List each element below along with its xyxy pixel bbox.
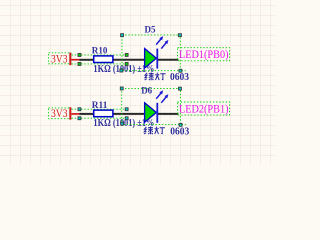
LED D5 emission arrow 2 [161,43,166,49]
LED D6 [145,90,169,123]
svg-text:D5: D5 [145,25,156,35]
svg-text:LED1(PB0): LED1(PB0) [179,48,229,61]
LED D5 [145,36,169,69]
selection box: net label LED2(PB1) [178,102,230,115]
sheet background [0,0,275,164]
svg-text:3V3: 3V3 [51,108,68,120]
LED D6 cathode bar [156,103,158,123]
selection handles: resistor R11 (cyan) [78,108,128,120]
LED D5 triangle [145,49,157,69]
selection box: LED D6 [122,88,186,124]
LED D6 triangle [145,103,157,123]
svg-text:3V3: 3V3 [51,53,68,65]
wire: 3V3 to R10 (top) [80,59,95,61]
selection box: LED D5 [122,35,186,71]
selection box: net label LED1(PB0) [178,48,230,61]
resistor R10 [94,56,113,63]
power port 3V3 (top) [51,53,80,66]
selection box: power port 3V3 (bottom) [48,108,70,119]
svg-text:LED2(PB1): LED2(PB1) [179,103,229,116]
svg-text:R11: R11 [92,100,108,110]
selection handles: LED D5 (cyan) [120,34,182,73]
wire: R10 to LED D5 (top) [113,59,146,61]
value label: 绿灯 (green lamp) glyphs (bottom) [144,127,165,135]
selection handles: LED D6 (cyan) [120,87,182,126]
selection box: power port 3V3 (top) [49,53,71,64]
selection dashes: resistor R11 bounds [72,109,127,118]
wire: LED D5 to net label (top) [158,59,179,61]
LED D6 emission arrow 2 [161,97,166,103]
selection dashes: resistor R10 bounds [72,55,127,64]
svg-text:0603: 0603 [170,127,189,138]
power port 3V3 (bottom) [51,107,80,120]
svg-text:D6: D6 [141,85,152,95]
LED D5 emission arrow 1 [156,39,161,45]
svg-text:R10: R10 [92,46,108,56]
resistor R11 [94,110,113,117]
selection handles: resistor R10 (green) [78,54,128,66]
wire: 3V3 to R11 (bottom) [80,113,95,115]
wire: LED D6 to net label (bottom) [158,113,179,115]
svg-text:0603: 0603 [170,72,189,83]
LED D6 emission arrow 1 [156,93,161,99]
value label: 绿灯 (green lamp) glyphs (top) [145,73,166,81]
LED D5 cathode bar [156,49,158,69]
wire: R11 to LED D6 (bottom) [113,113,146,115]
